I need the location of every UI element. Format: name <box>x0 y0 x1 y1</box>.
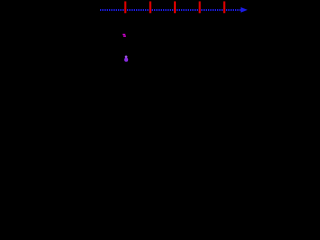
magenta label glyph <box>123 34 126 37</box>
tick mark 3 <box>174 1 176 13</box>
tick mark 4 <box>199 1 201 13</box>
arrowhead at right end of number line <box>241 7 248 13</box>
tick mark 5 <box>223 1 225 13</box>
tick mark 2 <box>149 1 151 13</box>
tick mark 1 <box>124 1 126 13</box>
wire dashed number line <box>100 9 241 11</box>
purple point marker <box>124 56 128 62</box>
